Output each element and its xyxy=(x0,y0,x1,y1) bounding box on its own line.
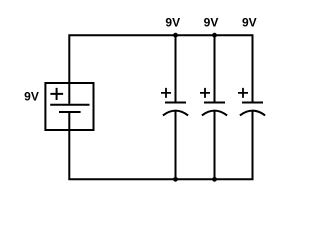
svg-text:9V: 9V xyxy=(204,16,219,30)
svg-text:9V: 9V xyxy=(165,16,180,30)
svg-text:9V: 9V xyxy=(24,90,39,104)
svg-text:9V: 9V xyxy=(242,16,257,30)
